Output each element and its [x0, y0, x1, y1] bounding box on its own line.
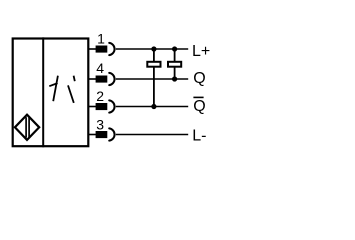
node junction dot Q-bar / load 1 — [151, 104, 156, 109]
node junction dot L+ / load 2 — [172, 46, 177, 51]
pin 4 socket — [109, 73, 114, 85]
svg-text:L+: L+ — [192, 43, 210, 60]
wire box to pin 2 — [89, 106, 97, 108]
wire pin 2 to Q-bar — [116, 106, 188, 108]
svg-text:2: 2 — [96, 88, 104, 104]
wire pin 3 to L- — [116, 134, 188, 136]
wire pin 1 to L+ — [116, 48, 188, 50]
load resistor 2 — [168, 62, 181, 67]
wire L+ down to load 1 — [153, 49, 155, 62]
proximity sensor symbol (diamond) — [15, 115, 39, 140]
wire pin 4 to Q — [116, 78, 188, 80]
NC contact symbol — [49, 76, 58, 102]
pin 2 blade — [96, 103, 108, 110]
sensor body divider — [42, 37, 44, 147]
node junction dot L+ / load 1 — [151, 46, 156, 51]
pin 3 socket — [109, 128, 114, 140]
pin 2 socket — [109, 100, 114, 112]
label Q-bar — [193, 97, 205, 114]
load resistor 1 — [147, 62, 160, 67]
NO contact symbol — [68, 76, 75, 103]
svg-text:4: 4 — [96, 60, 104, 76]
svg-text:Q: Q — [193, 98, 205, 115]
wire load 2 down to Q line — [174, 67, 176, 79]
pin 1 blade — [96, 46, 108, 53]
svg-text:L-: L- — [192, 127, 206, 144]
node junction dot Q / load 2 — [172, 76, 177, 81]
svg-text:3: 3 — [96, 116, 104, 132]
pin 4 blade — [96, 76, 108, 83]
svg-text:Q: Q — [193, 70, 205, 87]
pin 1 socket — [109, 43, 114, 55]
wire box to pin 3 — [89, 134, 97, 136]
sensor body outline — [13, 39, 89, 147]
pin 3 blade — [96, 131, 108, 138]
svg-text:1: 1 — [97, 31, 105, 47]
wire box to pin 4 — [89, 78, 97, 80]
wire load 1 down to Q-bar line — [153, 67, 155, 107]
wire L+ down to load 2 — [174, 49, 176, 62]
wire box to pin 1 — [89, 48, 97, 50]
